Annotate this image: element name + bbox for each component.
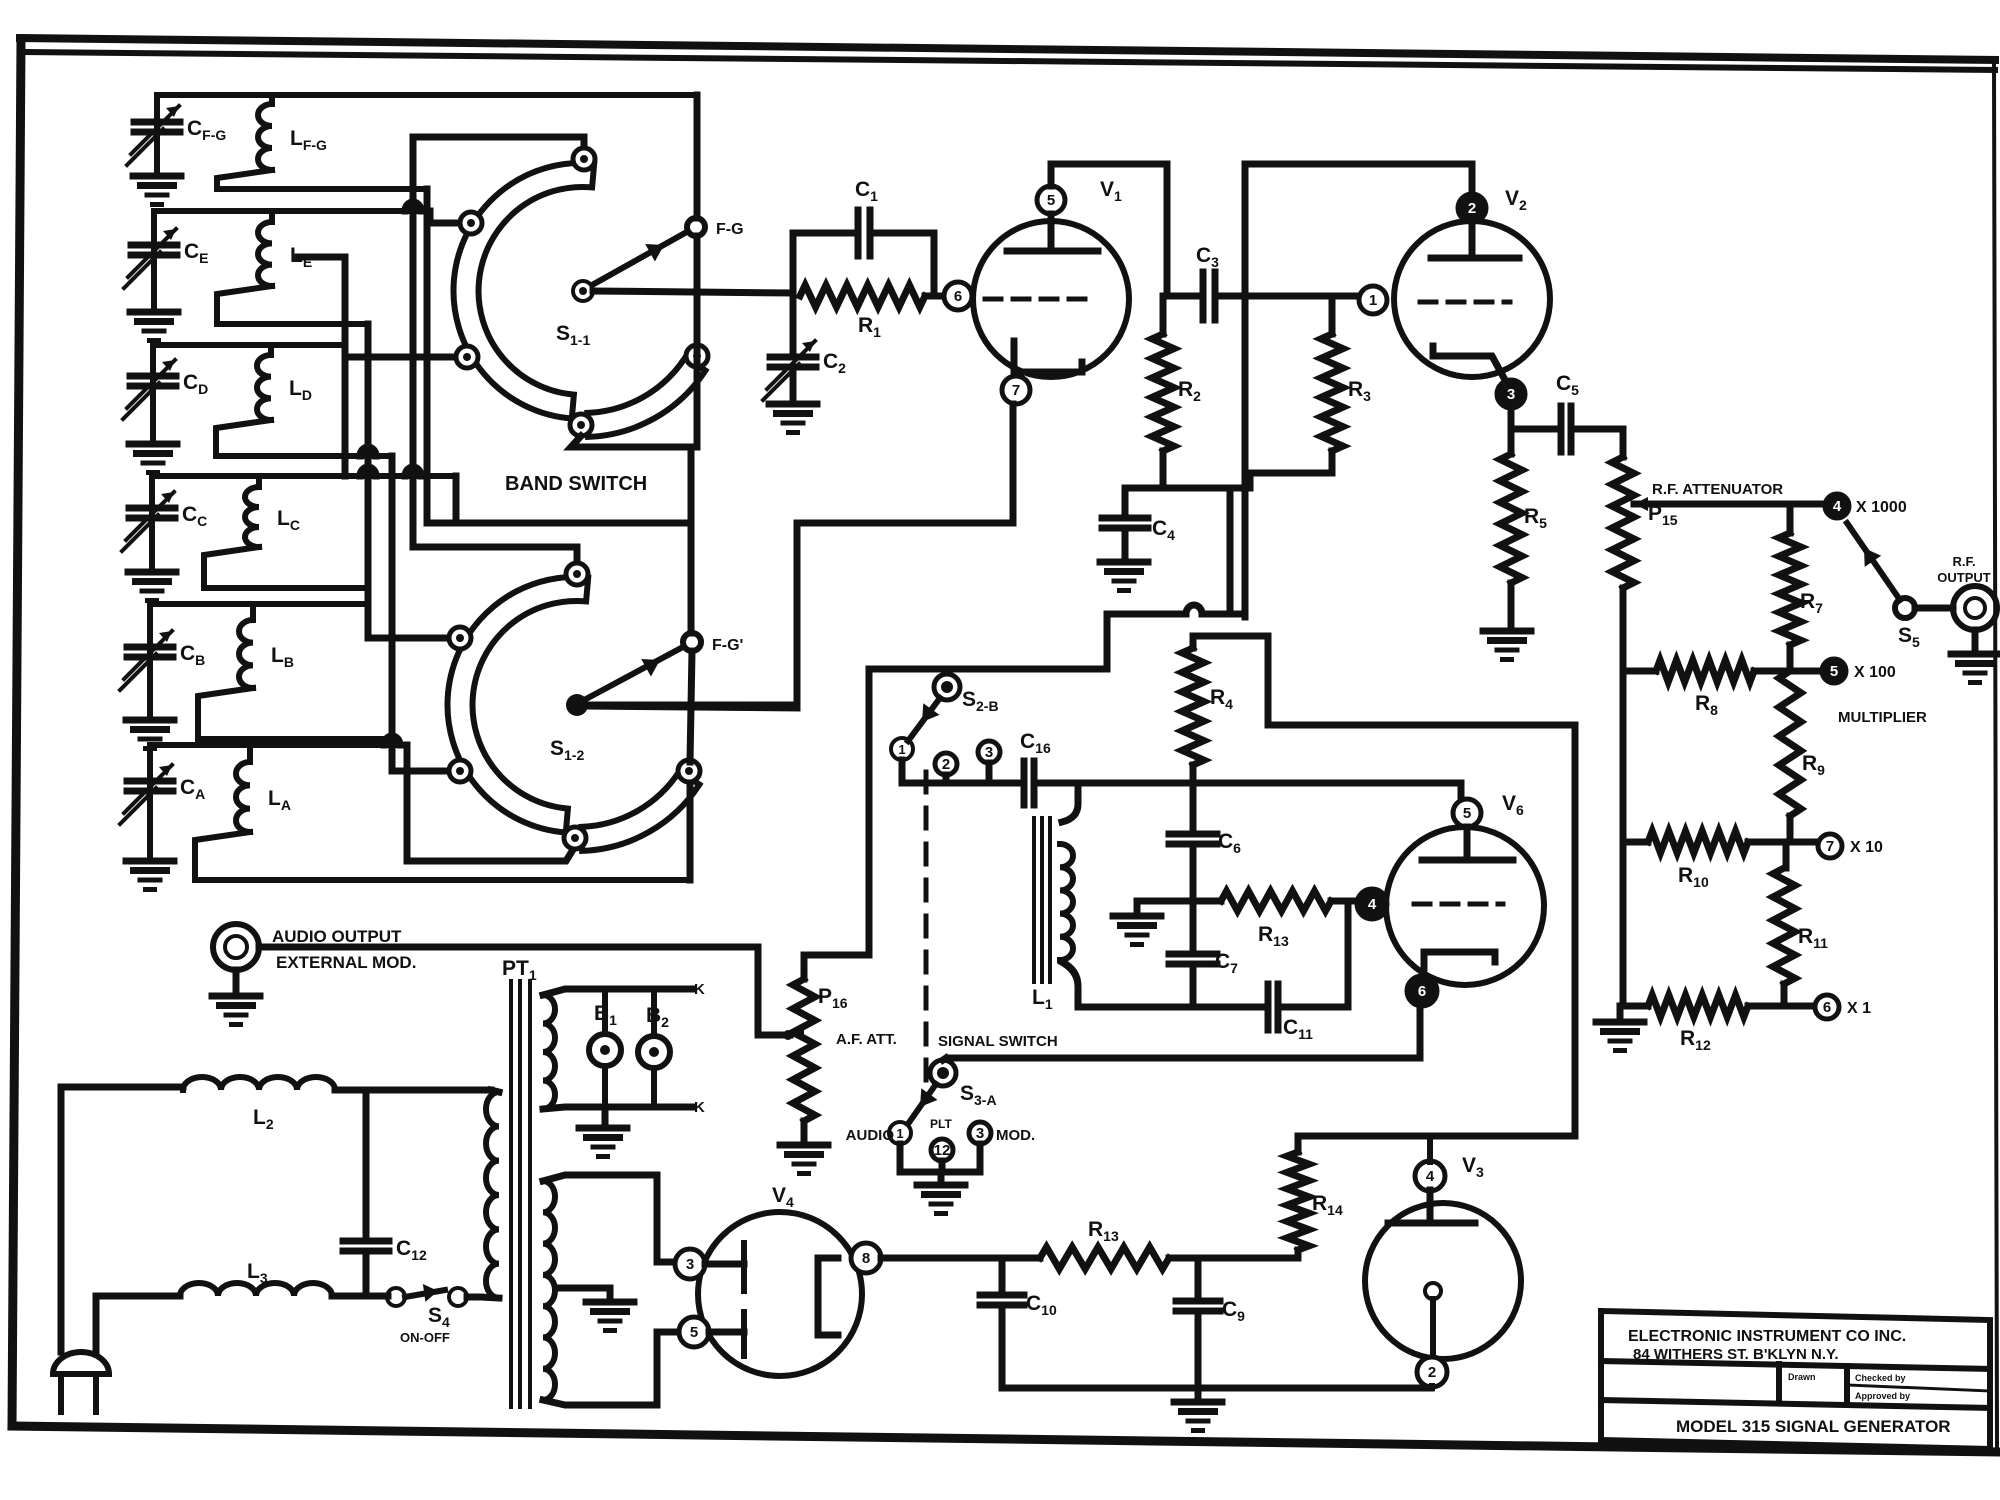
capacitor C7 bbox=[1169, 951, 1217, 958]
svg-text:3: 3 bbox=[976, 1125, 984, 1142]
title block frame bbox=[1601, 1311, 1990, 1449]
PT1 filament secondary bbox=[543, 989, 692, 995]
wire (tank B coil tap) bbox=[198, 688, 392, 739]
V6 plate bbox=[1464, 827, 1471, 860]
inductor LB bbox=[250, 604, 256, 620]
wire (V2 cathode node) bbox=[1511, 408, 1556, 429]
inductor LA bbox=[247, 745, 253, 762]
title block row line 2 bbox=[1601, 1400, 1990, 1408]
svg-text:3: 3 bbox=[1507, 386, 1515, 403]
wire (filter bottom line) bbox=[1002, 1385, 1431, 1392]
resistor R13 (filter) bbox=[1002, 1255, 1040, 1262]
multiplier contact X10 bbox=[1786, 839, 1818, 846]
svg-text:5: 5 bbox=[1463, 805, 1471, 822]
PT1 HV secondary bbox=[543, 1175, 657, 1181]
variable capacitor CF-G bbox=[154, 95, 160, 172]
switch S5 arm bbox=[1847, 523, 1900, 600]
svg-text:4: 4 bbox=[1426, 1168, 1435, 1185]
svg-text:EXTERNAL MOD.: EXTERNAL MOD. bbox=[276, 953, 416, 972]
capacitor C1 bbox=[793, 230, 857, 237]
svg-text:2: 2 bbox=[942, 756, 950, 773]
S2-B pin 1 bbox=[891, 738, 913, 760]
F-G selector circle bbox=[687, 218, 705, 236]
rotary switch S1-1 lower-right arc bbox=[587, 357, 705, 437]
wire bus x=368 (E tap / C tap / B top to S1-2 upper-left contact) bbox=[368, 324, 452, 638]
ganged switch dashed link (S2-B to S3-A) bbox=[924, 772, 929, 1082]
variable capacitor CB bbox=[147, 604, 153, 716]
wire hop (C top over bus 368) bbox=[360, 467, 376, 476]
title block divider 1 bbox=[1776, 1364, 1782, 1403]
svg-text:5: 5 bbox=[1830, 663, 1838, 680]
V3 plate bbox=[1427, 1190, 1434, 1223]
ground (tank F-G) bbox=[133, 173, 181, 180]
wire (tank B top) bbox=[150, 601, 368, 607]
V2 pin 1 bbox=[1359, 286, 1387, 314]
wire (tank D top) bbox=[153, 342, 345, 348]
svg-text:6: 6 bbox=[1823, 999, 1831, 1016]
border frame left edge bbox=[12, 40, 21, 1426]
wire hop (D tap over bus 368) bbox=[360, 447, 376, 456]
RF output jack bbox=[1953, 586, 1997, 630]
svg-text:F-G: F-G bbox=[716, 221, 744, 238]
V1 pin 7 bbox=[1002, 376, 1030, 404]
svg-text:2: 2 bbox=[1428, 1364, 1436, 1381]
ground (S3-A) bbox=[917, 1182, 965, 1189]
title block divider 2 bbox=[1844, 1366, 1850, 1405]
ground (audio jack) bbox=[233, 970, 240, 994]
S5 pivot bbox=[1895, 598, 1915, 618]
V2 cathode bbox=[1433, 346, 1505, 380]
border frame bottom edge bbox=[12, 1426, 1997, 1452]
title block inner line bbox=[1847, 1385, 1990, 1391]
potentiometer P16 wiper arrow bbox=[790, 1028, 804, 1042]
V1 plate bbox=[1048, 214, 1055, 251]
wire (S2-B pins to C16 line) bbox=[902, 760, 1020, 783]
svg-text:1: 1 bbox=[896, 1126, 903, 1141]
V4 anode upper bbox=[705, 1261, 744, 1268]
wire (tank C top join) bbox=[453, 476, 460, 523]
resistor R8 bbox=[1623, 668, 1656, 675]
wire (plate node to C3) bbox=[1167, 293, 1200, 300]
capacitor C11 bbox=[1265, 984, 1272, 1030]
P15 wiper tap bbox=[1634, 501, 1820, 508]
ground (R5) bbox=[1483, 628, 1531, 635]
svg-text:5: 5 bbox=[1047, 192, 1055, 209]
wire (pin10 up to cathode line) bbox=[943, 1058, 946, 1060]
pilot lamp B1 bbox=[589, 1034, 621, 1066]
svg-text:AUDIO OUTPUT: AUDIO OUTPUT bbox=[272, 927, 402, 946]
wire (tank A coil tap) bbox=[195, 832, 690, 880]
V6 grid (dashed) bbox=[1414, 902, 1503, 907]
S1-1 contact right bbox=[686, 345, 708, 367]
S1-2 contact right bbox=[678, 760, 700, 782]
svg-text:K: K bbox=[694, 1099, 705, 1116]
resistor R13 (grid stopper) bbox=[1199, 898, 1221, 905]
V6 pin 4 bbox=[1357, 889, 1387, 919]
V3 pin 4 bbox=[1415, 1161, 1445, 1191]
ground (C4) bbox=[1100, 559, 1148, 566]
wire (V1 plate to top rail) bbox=[1051, 164, 1167, 296]
inductor L3 bbox=[180, 1283, 332, 1296]
PT1 core bbox=[509, 981, 513, 1407]
wire (tank F-G coil tap) bbox=[217, 170, 427, 189]
svg-text:ON-OFF: ON-OFF bbox=[400, 1330, 450, 1345]
svg-text:K: K bbox=[694, 981, 705, 998]
svg-text:MOD.: MOD. bbox=[996, 1127, 1035, 1144]
wire bus x=413 (S1-1 top contact to S1-2 top contact) bbox=[413, 137, 584, 565]
V3 cathode dot bbox=[1425, 1283, 1441, 1299]
svg-text:3: 3 bbox=[686, 1256, 694, 1273]
wire (P15 body down to ground bus) bbox=[1620, 588, 1627, 1006]
resistor R2 bbox=[1160, 296, 1167, 334]
wire (C7 bottom to L1 bottom line) bbox=[1190, 965, 1197, 1007]
border frame inner top line bbox=[24, 52, 1995, 70]
svg-text:8: 8 bbox=[862, 1250, 870, 1267]
multiplier contact X1000 bbox=[1820, 501, 1826, 508]
svg-text:OUTPUT: OUTPUT bbox=[1937, 570, 1991, 585]
audio output jack bbox=[213, 924, 259, 970]
wire (C16 to V6 pin 5 baseline) bbox=[1035, 783, 1461, 799]
capacitor C3 bbox=[1200, 272, 1207, 320]
ground (tank C) bbox=[128, 569, 176, 576]
svg-text:Approved by: Approved by bbox=[1855, 1391, 1910, 1401]
wire (S1-2 pivot right to cathode node) bbox=[588, 702, 795, 709]
wire (C3 to V2 grid pin 1) bbox=[1216, 293, 1358, 300]
S1-2 contact upper-left bbox=[449, 627, 471, 649]
wire (V4 pin 8 output) bbox=[881, 1255, 1002, 1262]
variable capacitor CE bbox=[151, 211, 157, 308]
svg-text:AUDIO: AUDIO bbox=[846, 1127, 895, 1144]
wire hop (A top over bus 392) bbox=[384, 736, 400, 745]
V1 pin 6 bbox=[944, 282, 972, 310]
svg-text:3: 3 bbox=[985, 744, 993, 761]
capacitor C16 bbox=[1021, 761, 1028, 805]
wire (tank D coil tap) bbox=[216, 420, 392, 456]
V2 pin 3 bbox=[1497, 380, 1525, 408]
V2 plate bbox=[1469, 222, 1476, 258]
svg-text:ELECTRONIC INSTRUMENT CO INC: ELECTRONIC INSTRUMENT CO INC. bbox=[1628, 1328, 1906, 1345]
V6 pin 6 bbox=[1407, 976, 1437, 1006]
wire (tank E coil tap) bbox=[217, 286, 368, 324]
svg-text:Drawn: Drawn bbox=[1788, 1372, 1816, 1382]
wire (R4 top B+ path to right rail) bbox=[1193, 636, 1575, 1136]
ground (RF output) bbox=[1972, 630, 1979, 652]
wire (tank A top) bbox=[150, 742, 407, 748]
rotary switch S1-2 main arc bbox=[447, 577, 588, 833]
variable capacitor C2 bbox=[770, 354, 816, 361]
title block row line 1 bbox=[1601, 1361, 1990, 1369]
resistor R9 bbox=[1779, 671, 1801, 816]
wire (tank E top) bbox=[154, 208, 430, 214]
potentiometer P15 element bbox=[1612, 457, 1634, 588]
pilot lamp B2 bbox=[638, 1036, 670, 1068]
capacitor C5 bbox=[1558, 406, 1565, 452]
V4 pin 8 bbox=[851, 1243, 881, 1273]
S1-2 arm to F-G' point bbox=[586, 648, 681, 699]
variable capacitor CC bbox=[149, 476, 155, 568]
wire (C5 to attenuator top) bbox=[1572, 429, 1623, 457]
wire (F-G' vertical to right contact) bbox=[688, 448, 695, 633]
svg-text:X 10: X 10 bbox=[1850, 839, 1883, 856]
svg-text:4: 4 bbox=[1368, 896, 1377, 913]
wire (plug to L2) bbox=[61, 1087, 183, 1352]
S3-A arm bbox=[908, 1084, 936, 1124]
capacitor C12 bbox=[363, 1090, 370, 1235]
multiplier contact X1 bbox=[1815, 995, 1839, 1019]
rotary switch S1-2 lower-right arc bbox=[581, 771, 699, 851]
S2-B pin 2 bbox=[935, 753, 957, 775]
multiplier contact X100 bbox=[1790, 668, 1822, 675]
resistor R11 bbox=[1786, 842, 1790, 868]
capacitor C4 bbox=[1122, 488, 1129, 517]
S3-A pin 1 (audio) bbox=[889, 1122, 911, 1144]
V1 cathode bbox=[1014, 341, 1082, 372]
variable capacitor CD bbox=[150, 345, 156, 440]
border frame outer top line bbox=[20, 38, 1995, 60]
V4 anode lower bbox=[709, 1329, 744, 1336]
svg-text:2: 2 bbox=[1468, 200, 1476, 217]
border frame right edge bbox=[1994, 62, 1997, 1450]
S3-A contact pin 10 bbox=[930, 1060, 956, 1086]
V3 pin 2 bbox=[1417, 1357, 1447, 1387]
wire (S4 to PT1 primary bottom) bbox=[467, 1294, 480, 1301]
F-G' selector circle bbox=[683, 633, 701, 651]
wire (tank C top) bbox=[152, 473, 456, 479]
wire (V6 cathode to S3-A pin 10) bbox=[950, 1005, 1420, 1058]
wire (L2 right to PT1 primary top) bbox=[335, 1087, 491, 1094]
ground (C2) bbox=[769, 401, 817, 408]
wire (tank A tap up to S1-2 right contact) bbox=[687, 779, 694, 880]
svg-text:PLT: PLT bbox=[930, 1117, 952, 1131]
V4 cathode bracket bbox=[818, 1258, 838, 1335]
wire (V2 plate rail) bbox=[1245, 164, 1472, 617]
inductor LE bbox=[269, 211, 275, 222]
resistor R1 bbox=[800, 285, 925, 307]
wire bus x=427 (F-G tap down to y=523 line) bbox=[427, 189, 688, 523]
svg-text:6: 6 bbox=[1418, 983, 1426, 1000]
V2 pin 2 bbox=[1458, 194, 1486, 222]
S2-B arm bbox=[908, 698, 940, 741]
svg-text:X 1000: X 1000 bbox=[1856, 499, 1907, 516]
wire (tank A top to S1-2 bottom contact) bbox=[407, 745, 574, 861]
resistor R4 bbox=[1190, 636, 1197, 648]
wire (tank E top to S1-1 upper-left contact) bbox=[430, 211, 462, 223]
svg-text:R.F. ATTENUATOR: R.F. ATTENUATOR bbox=[1652, 481, 1783, 498]
wire (L3 to S4) bbox=[332, 1293, 388, 1300]
hop over R4 lead bbox=[1186, 605, 1202, 614]
wire (R3 bottom to C4 node) bbox=[1230, 451, 1332, 614]
svg-text:X 1: X 1 bbox=[1847, 1000, 1871, 1017]
svg-text:12: 12 bbox=[934, 1142, 951, 1159]
svg-text:MULTIPLIER: MULTIPLIER bbox=[1838, 709, 1927, 726]
ground (C6/C7 midpoint) bbox=[1137, 901, 1187, 914]
S3-A pin 12 bbox=[931, 1139, 953, 1161]
V1 pin 5 bbox=[1037, 186, 1065, 214]
svg-text:R.F.: R.F. bbox=[1952, 554, 1975, 569]
capacitor C6 bbox=[1169, 831, 1217, 838]
wire (C6 to C7) bbox=[1190, 845, 1197, 953]
wire (S2-B common rail) bbox=[869, 614, 1186, 669]
wire (audio jack to P16 wiper) bbox=[259, 944, 758, 951]
wire (C11 up to V6 grid node) bbox=[1279, 901, 1348, 1007]
wire (L1 bottom to C11) bbox=[1078, 1004, 1264, 1011]
wire (tank C coil tap) bbox=[204, 547, 368, 588]
wire (S3-A pins to ground) bbox=[900, 1144, 980, 1172]
ground (tank A) bbox=[126, 858, 174, 865]
svg-text:5: 5 bbox=[690, 1324, 698, 1341]
transformer L1 core bbox=[1032, 818, 1036, 982]
svg-text:MODEL 315 SIGNAL GENERATOR: MODEL 315 SIGNAL GENERATOR bbox=[1676, 1417, 1951, 1436]
svg-text:F-G': F-G' bbox=[712, 637, 743, 654]
wire (P15 bottom / R12 left) bbox=[1623, 1003, 1648, 1010]
capacitor C10 bbox=[999, 1258, 1006, 1291]
resistor R7 bbox=[1790, 504, 1820, 533]
HV winding center tap ground bbox=[556, 1288, 610, 1300]
svg-text:7: 7 bbox=[1826, 838, 1834, 855]
inductor LF-G bbox=[269, 95, 275, 104]
ground (C9) bbox=[1195, 1388, 1202, 1400]
wire (grid node vertical, R1 left / C2) bbox=[790, 233, 797, 355]
wire hop (C top over bus 413) bbox=[405, 467, 421, 476]
resistor R3 bbox=[1329, 296, 1336, 334]
wire (tank F-G top) bbox=[157, 92, 697, 98]
svg-text:A.F. ATT.: A.F. ATT. bbox=[836, 1031, 897, 1048]
wire (HV top to V4 pin 3) bbox=[657, 1175, 674, 1262]
S1-2 pivot bbox=[566, 694, 588, 716]
ground (attenuator) bbox=[1617, 1006, 1624, 1020]
wire bus x=392 (D tap / B tap to S1-2 lower-left contact) bbox=[392, 456, 452, 771]
variable capacitor CA bbox=[147, 745, 153, 857]
ground (filament winding) bbox=[602, 1107, 609, 1126]
tube V3 envelope bbox=[1365, 1203, 1521, 1359]
S1-1 arm to F-G point bbox=[592, 233, 685, 285]
ground (tank D) bbox=[129, 441, 177, 448]
switch S2-B contact pin 4 bbox=[934, 674, 960, 700]
ground (P16) bbox=[780, 1142, 828, 1149]
svg-text:BAND SWITCH: BAND SWITCH bbox=[505, 473, 647, 495]
svg-text:7: 7 bbox=[1012, 382, 1020, 399]
S1-1 contact upper-left bbox=[460, 212, 482, 234]
svg-text:X 100: X 100 bbox=[1854, 664, 1896, 681]
wire (V1 cathode down to oscillator cathode node) bbox=[588, 404, 1013, 708]
wire hop (E top over bus) bbox=[405, 202, 421, 211]
svg-text:1: 1 bbox=[898, 742, 905, 757]
PT1 primary winding bbox=[491, 1090, 499, 1092]
potentiometer P16 element bbox=[801, 955, 808, 979]
S1-2 contact bottom bbox=[564, 827, 586, 849]
inductor L2 bbox=[183, 1077, 335, 1090]
inductor LD bbox=[268, 345, 274, 355]
wire (S5 to RF output jack) bbox=[1915, 605, 1953, 612]
switch S4 on-off bbox=[387, 1288, 405, 1306]
wire (R2 bottom to C4 node) bbox=[1125, 451, 1163, 488]
svg-text:6: 6 bbox=[954, 288, 962, 305]
svg-text:SIGNAL SWITCH: SIGNAL SWITCH bbox=[938, 1033, 1058, 1050]
S1-1 contact bottom bbox=[570, 414, 592, 436]
tube V2 envelope bbox=[1394, 221, 1550, 377]
wire (F-G vertical through right contact) bbox=[694, 95, 701, 218]
line plug bbox=[53, 1352, 109, 1374]
tube V1 envelope bbox=[973, 221, 1129, 377]
tube V6 envelope bbox=[1386, 827, 1544, 985]
svg-text:84 WITHERS ST. B'KLYN N.: 84 WITHERS ST. B'KLYN N.Y. bbox=[1633, 1346, 1839, 1363]
capacitor C9 bbox=[1195, 1258, 1202, 1297]
S1-1 contact top bbox=[573, 148, 595, 170]
S2-B pin 3 bbox=[978, 741, 1000, 763]
S1-1 contact lower-left bbox=[456, 346, 478, 368]
V4 pin 5 bbox=[679, 1317, 709, 1347]
V6 pin 5 bbox=[1453, 799, 1481, 827]
resistor R5 bbox=[1508, 429, 1515, 454]
S1-2 contact top bbox=[566, 563, 588, 585]
wire (P16 top to S2-B rail) bbox=[804, 669, 869, 955]
wire (plug to L3) bbox=[96, 1296, 180, 1352]
rotary switch S1-1 main arc bbox=[453, 163, 594, 419]
wire (HV bottom to V4 pin 5) bbox=[657, 1332, 678, 1405]
ground (tank B) bbox=[126, 717, 174, 724]
wire (P16 bottom to ground) bbox=[801, 1121, 808, 1142]
resistor R10 bbox=[1623, 839, 1648, 846]
tube V4 envelope bbox=[698, 1212, 862, 1376]
wire (R4 bottom junction down to C6) bbox=[1190, 783, 1197, 830]
resistor R14 bbox=[1295, 1250, 1302, 1258]
wire (tank E lower tap into bundle) bbox=[298, 257, 345, 476]
wire (tank D top to S1-1 lower-left contact) bbox=[345, 345, 458, 357]
S3-A pin 3 (mod) bbox=[969, 1122, 991, 1144]
V4 pin 3 bbox=[675, 1249, 705, 1279]
inductor LC bbox=[256, 476, 262, 487]
svg-text:Checked by: Checked by bbox=[1855, 1373, 1906, 1383]
V1 grid (dashed) bbox=[985, 297, 1090, 302]
wire (S1-1 pivot to R1 node) bbox=[593, 291, 793, 293]
resistor R12 bbox=[1648, 995, 1748, 1017]
transformer L1 winding bbox=[1062, 783, 1078, 822]
S1-1 pivot bbox=[573, 281, 593, 301]
svg-text:1: 1 bbox=[1369, 292, 1377, 309]
V2 grid (dashed) bbox=[1420, 300, 1510, 305]
S1-2 contact lower-left bbox=[449, 760, 471, 782]
svg-text:4: 4 bbox=[1833, 498, 1842, 515]
ground (tank E) bbox=[130, 309, 178, 316]
wire (R1 right to V1 pin6) bbox=[925, 293, 944, 300]
V6 cathode bbox=[1424, 952, 1495, 968]
